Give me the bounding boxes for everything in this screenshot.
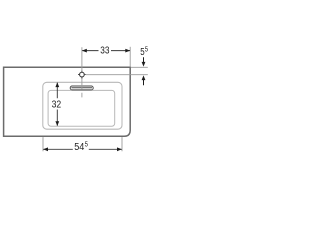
dim 54.5 right arrow bbox=[117, 147, 122, 151]
dim 32 up arrow bbox=[55, 82, 59, 87]
dim 32 line bbox=[56, 83, 58, 126]
dim 54.5 ext line right bbox=[121, 137, 123, 151]
dim 33 left arrow bbox=[82, 49, 87, 53]
svg-text:5: 5 bbox=[145, 47, 148, 54]
tap hole circle U1 bbox=[80, 72, 85, 77]
dim 5.5 ext line from tap hole bbox=[86, 74, 148, 76]
dim 32 down arrow bbox=[55, 121, 59, 126]
basin rim outer outline bbox=[43, 82, 122, 129]
basin bowl inner outline bbox=[48, 90, 115, 126]
dim 54.5 left arrow bbox=[43, 147, 48, 151]
dim 33 line bbox=[82, 50, 130, 52]
svg-text:32: 32 bbox=[52, 100, 62, 111]
washbasin ceramic outline bbox=[4, 67, 131, 136]
tap hole ticks bbox=[78, 71, 86, 79]
svg-text:54: 54 bbox=[74, 142, 84, 153]
dim 5.5 lower arrow (up) bbox=[142, 75, 146, 80]
dim 54.5 line bbox=[43, 148, 122, 150]
dim 5.5 upper arrow (down) bbox=[143, 57, 145, 62]
dim 5.5 ext line from top edge bbox=[131, 66, 148, 68]
svg-text:5: 5 bbox=[85, 141, 88, 148]
dim 54.5 ext line left bbox=[42, 137, 44, 151]
tap hole centerline (vertical) bbox=[81, 47, 83, 97]
svg-text:33: 33 bbox=[100, 45, 110, 56]
dim 33 right arrow bbox=[125, 49, 130, 53]
dim 33 extension line right bbox=[129, 47, 131, 67]
overflow slot bbox=[70, 86, 93, 90]
